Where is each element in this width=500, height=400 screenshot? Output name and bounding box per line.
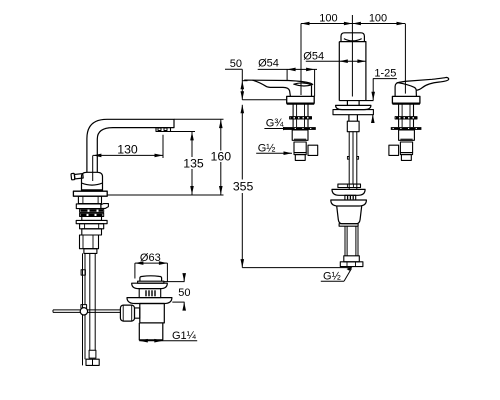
dimension 1-25 [371,79,397,123]
clevis ball nut [120,305,134,321]
pivot joint block [81,305,87,309]
plug cap [140,276,162,281]
lower dish flange [127,298,172,304]
lever pin [71,172,83,179]
thread washer [290,117,312,119]
spout neck [347,101,359,106]
threaded tube upper [349,115,358,122]
handle flange [287,96,315,103]
bottom reference line [242,267,351,269]
top dimension line 100 / 100 [301,22,405,95]
svg-text:130: 130 [117,143,138,157]
svg-text:G½: G½ [258,142,276,154]
svg-text:Ø54: Ø54 [258,57,279,69]
G1 1/4 leader with double arrow [139,339,197,343]
housing left wall + corner [395,82,400,96]
connector base [400,153,412,155]
top dish flange [132,283,168,288]
deck line (right figure) [242,99,286,101]
spout bottom edge + extension [339,100,373,102]
side box (right) [308,145,318,155]
locknut dark bar [285,127,316,130]
slotted stem [139,289,161,298]
shank box [82,229,102,235]
spout body (pipe + arm) [87,119,174,172]
dimension 355 [241,105,245,268]
shank lower [293,119,308,127]
waste foot plate [340,262,363,267]
waste foot box [344,256,360,262]
svg-text:G1¼: G1¼ [172,330,197,342]
body dome [82,172,103,191]
waste cup [337,206,362,224]
handle shank [293,104,308,117]
shank end cap [84,249,97,254]
thread washer [395,117,417,119]
valve body [292,130,308,140]
connector base [294,153,306,155]
waste slotted stem [345,195,356,200]
washer bar 2 [80,213,104,216]
G 1/2 leader (bottom) [321,266,353,281]
clevis stub [135,308,140,318]
connector tip [295,155,305,161]
svg-text:100: 100 [319,12,337,24]
waste dish 1 [332,189,365,195]
spout cap [341,33,364,42]
washer bar 1 [80,209,104,212]
horizontal lever rod [53,310,121,313]
dimension 130 [93,135,163,158]
tailpipe [139,323,163,340]
svg-text:135: 135 [183,156,204,170]
aerator [156,128,171,132]
svg-text:100: 100 [369,12,387,24]
svg-text:355: 355 [233,180,254,194]
dimension Ø54 (spout) [306,59,366,63]
spout lock plate [333,110,373,115]
svg-text:G¾: G¾ [266,118,285,130]
dimension Ø54 (handle) [258,68,317,97]
dimension 50 (drain height) [164,273,186,311]
locknut dark bar [391,127,422,130]
stack column 1 [78,196,101,203]
spout body [339,42,366,101]
handle dome lens [294,83,312,86]
plug base bar [138,281,164,283]
handle shank [399,104,414,117]
clamp on rod [81,270,85,275]
pivot ball [80,308,87,315]
svg-text:Ø54: Ø54 [303,51,324,63]
G 3/4 label [264,127,291,131]
dimension Ø63 [135,261,168,281]
housing right wall [415,90,417,96]
tube end fitting [89,350,96,358]
foot bar [86,359,99,365]
striped lower shank [80,235,99,249]
svg-text:50: 50 [178,287,190,299]
handle dome arc [399,83,417,91]
mounting flange [73,191,107,196]
lever (right handle) [397,77,449,90]
dimension 135 [171,132,196,195]
dimension 50 (handle height) [225,69,248,100]
waste body [140,304,165,323]
svg-text:160: 160 [211,150,232,164]
pop-up pull rod (vertical) [83,253,86,365]
side box (left) [389,145,399,155]
lever (left handle) [244,80,313,85]
spout center line [351,15,353,97]
handle flange [392,96,420,103]
faucet axis line [92,155,94,181]
waste tailpipe [345,226,358,256]
lower connector body [400,142,412,153]
housing wall [311,86,313,97]
valve body [399,130,415,140]
adjusting nut [347,121,359,132]
G 1/2 label [256,151,292,155]
fitting lines [294,139,306,142]
svg-text:Ø63: Ø63 [140,252,161,264]
shank lower [399,119,414,127]
dimension 160 [174,119,224,194]
supply tube [349,132,357,190]
tube nubs [347,157,349,160]
mounting nut [80,224,104,229]
supply tube (vertical) [90,253,95,350]
lower connector body [294,142,306,153]
stack column 2 [82,217,102,221]
wide washer [76,220,107,223]
deck reference line [107,194,223,196]
stack nut row [76,204,101,209]
side clip tab [101,204,109,209]
svg-text:50: 50 [230,58,242,70]
spout dish flange [336,105,371,109]
waste dish 2 [331,200,367,206]
svg-text:1-25: 1-25 [374,67,396,79]
waste top bar [338,184,361,187]
svg-text:G½: G½ [323,270,341,282]
connector tip [401,155,411,161]
fitting lines [400,139,412,142]
